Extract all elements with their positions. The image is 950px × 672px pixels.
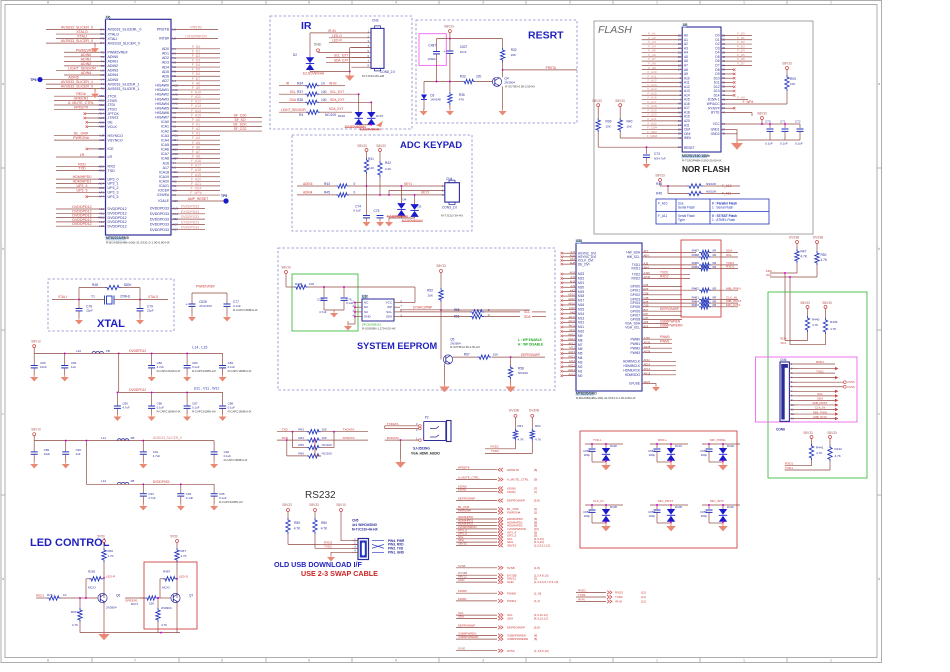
svg-text:F_A11: F_A11 — [191, 95, 201, 99]
svg-text:PWM2VREF: PWM2VREF — [108, 50, 129, 54]
svg-text:RXD1: RXD1 — [816, 360, 824, 364]
svg-text:UP3_0: UP3_0 — [108, 177, 119, 181]
power S8V10 rs232 — [340, 509, 343, 512]
resistor R40 10K — [619, 104, 622, 107]
svg-text:R-BGA989(489+100)-31.0X31.0-1.: R-BGA989(489+100)-31.0X31.0-1.00-0.80-HX — [576, 396, 636, 400]
U6 pin IOWE# wire — [171, 194, 220, 196]
U6 pin ICA6 wire — [171, 148, 220, 150]
ground under D110 — [709, 522, 723, 524]
U6 pin ICA5 wire — [171, 144, 220, 146]
svg-text:AB8: AB8 — [99, 125, 105, 129]
svg-text:100p: 100p — [649, 453, 656, 457]
svg-text:T4: T4 — [101, 59, 105, 63]
svg-text:R-CAPC2012N-HX: R-CAPC2012N-HX — [157, 369, 181, 373]
power S8V33 for flash config resistors — [659, 179, 662, 182]
U6 pin ADIN3 wire — [56, 69, 106, 71]
svg-text:F_D7: F_D7 — [737, 61, 745, 65]
svg-text:DVDDPD12: DVDDPD12 — [108, 224, 127, 228]
U6 pin JTRST wire — [86, 117, 106, 119]
RESRT block border — [416, 20, 577, 123]
svg-text:F_A20: F_A20 — [191, 177, 201, 181]
svg-text:R440: R440 — [812, 318, 820, 322]
svg-text:8: 8 — [47, 659, 49, 663]
svg-text:R66: R66 — [108, 549, 114, 553]
svg-text:2: 2 — [569, 659, 571, 663]
Q6 emitter to ground rail — [103, 603, 105, 633]
ground under Q5 — [444, 364, 446, 386]
svg-text:R60: R60 — [321, 521, 327, 525]
svg-text:E29: E29 — [644, 287, 649, 291]
CN6 pin 1 wire — [789, 363, 798, 365]
U34 pin M0 stub — [563, 375, 576, 377]
capacitor C80 10uF — [33, 353, 35, 365]
svg-text:5V50: 5V50 — [170, 535, 178, 539]
resistor R072 4.7K — [79, 598, 81, 608]
op-amp U6 main SoC MT8222A — [106, 19, 172, 235]
svg-text:DV50: DV50 — [848, 385, 855, 389]
svg-text:4.7K: 4.7K — [816, 451, 823, 455]
svg-text:220: 220 — [476, 75, 482, 79]
U8 pin D6 wire — [721, 60, 752, 62]
svg-text:SCL: SCL — [780, 341, 786, 345]
svg-text:4.7K: 4.7K — [161, 623, 167, 627]
svg-text:AB3: AB3 — [172, 147, 178, 151]
U6 IOALE pin / AMP_RESET wire / test point TP5 — [171, 200, 226, 202]
svg-text:T3: T3 — [101, 55, 105, 59]
svg-text:S8V12: S8V12 — [31, 340, 41, 344]
svg-text:a: a — [2, 82, 4, 86]
svg-text:AVS033_SLICER_1: AVS033_SLICER_1 — [108, 82, 140, 86]
power S8V33 keypad 1 — [365, 149, 368, 152]
ground under U8 GND — [731, 139, 743, 150]
svg-text:T2: T2 — [101, 50, 105, 54]
U34 pin PWM2 wire — [642, 347, 672, 349]
svg-text:GPIO1: GPIO1 — [630, 288, 640, 292]
U8 pin A12 wire — [642, 86, 683, 88]
svg-text:AJ11: AJ11 — [569, 328, 575, 332]
svg-text:EXDDPD33: EXDDPD33 — [181, 210, 199, 214]
U8 pin A6 wire — [642, 60, 683, 62]
resistor R35 47K — [449, 82, 451, 93]
U6 pin AD3 wire — [171, 62, 220, 64]
svg-text:TXD2: TXD2 — [491, 449, 499, 453]
U6 pin VCLK wire — [88, 126, 106, 128]
svg-text:R67: R67 — [181, 549, 187, 553]
resistor R57 10K — [453, 356, 478, 358]
ground under C80 — [30, 375, 38, 382]
U6 pin A17 wire — [171, 167, 220, 169]
off-page connector SDA — [456, 617, 497, 619]
svg-text:AK28: AK28 — [644, 349, 651, 353]
U6 pin LR wire — [56, 156, 106, 158]
svg-text:HDMIBCLK: HDMIBCLK — [624, 364, 641, 368]
ground under Q4 emitter — [502, 86, 504, 110]
capacitor C79 22pF — [139, 300, 141, 309]
U6 pin OE wire — [88, 121, 106, 123]
svg-text:R66: R66 — [298, 452, 304, 456]
svg-text:F_A16: F_A16 — [191, 159, 201, 163]
resistor R62 4.7K — [530, 429, 534, 441]
svg-text:AJ29: AJ29 — [644, 271, 651, 275]
svg-text:Y1: Y1 — [91, 295, 95, 299]
power S8V33 R442 — [829, 436, 832, 439]
svg-text:S8V10: S8V10 — [281, 266, 291, 270]
svg-text:M13: M13 — [578, 316, 584, 320]
svg-text:R441: R441 — [816, 446, 824, 450]
transistor Q4 2N3904 — [492, 77, 501, 86]
svg-text:4.7K: 4.7K — [535, 437, 541, 441]
U8 pin A19 wire — [642, 116, 683, 118]
capacitor C82 4.7uF — [151, 353, 153, 365]
capacitor C73 NS4.7uF — [646, 146, 648, 148]
ground LED control — [103, 632, 105, 634]
svg-text:SCL: SCL — [290, 90, 296, 94]
svg-text:R38: R38 — [297, 98, 303, 102]
svg-text:AH8: AH8 — [570, 261, 576, 265]
svg-text:HISAW2: HISAW2 — [155, 93, 169, 97]
svg-text:AB9: AB9 — [99, 120, 105, 124]
U34 EFUSE pin to ground — [642, 382, 656, 384]
svg-text:AC7: AC7 — [172, 222, 178, 226]
svg-text:R35: R35 — [459, 93, 465, 97]
svg-text:[12]: [12] — [641, 595, 646, 599]
svg-text:1: 1 — [656, 659, 658, 663]
U8 pin CE# wire — [642, 128, 683, 130]
svg-text:10K: 10K — [627, 125, 632, 129]
svg-text:ADIN2: ADIN2 — [81, 62, 92, 66]
svg-text:RXD1: RXD1 — [726, 265, 735, 269]
U6 pin ICA20 wire — [171, 180, 220, 182]
svg-text:NS4.7uF: NS4.7uF — [654, 157, 666, 161]
svg-text:3: 3 — [482, 659, 484, 663]
svg-text:4.7K: 4.7K — [518, 437, 524, 441]
svg-text:D100: D100 — [610, 444, 617, 448]
U8 pin D7 wire — [721, 64, 752, 66]
U34 pin M2 stub — [563, 366, 576, 368]
svg-text:S8V33: S8V33 — [282, 503, 292, 507]
jack ground — [400, 439, 402, 441]
svg-text:ADIN1: ADIN1 — [108, 60, 119, 64]
svg-text:VGA_HDMI_AUDIO: VGA_HDMI_AUDIO — [411, 452, 440, 456]
svg-text:MIB_PWN: MIB_PWN — [813, 410, 827, 414]
svg-text:1: 1 — [743, 1, 745, 5]
svg-text:10uF: 10uF — [44, 452, 51, 456]
svg-text:D4: D4 — [403, 198, 407, 202]
svg-text:R42: R42 — [385, 161, 391, 165]
U6 pin XTALI wire — [56, 38, 106, 40]
svg-text:M20: M20 — [578, 285, 584, 289]
svg-text:L15: L15 — [99, 224, 104, 228]
svg-text:SDA_EXT: SDA_EXT — [330, 98, 345, 102]
U34 pin GPIO7 wire — [642, 314, 682, 316]
svg-text:AA1: AA1 — [172, 102, 178, 106]
svg-text:RXDATA: RXDATA — [387, 436, 400, 440]
U6 pin HISAW4 wire — [171, 103, 220, 105]
svg-text:M18: M18 — [578, 294, 584, 298]
svg-text:R39: R39 — [606, 120, 612, 124]
svg-text:R458: R458 — [692, 253, 700, 257]
svg-text:U6: U6 — [106, 15, 110, 19]
resistor R52 20K — [439, 288, 443, 302]
svg-text:SDA: SDA — [289, 98, 296, 102]
ground under R35 — [449, 105, 451, 110]
red highlight box TVS diodes — [580, 431, 737, 548]
U8 pin D13 no-connect stub — [721, 90, 733, 92]
svg-text:LED-R: LED-R — [106, 575, 116, 579]
svg-text:HISAW0: HISAW0 — [155, 84, 169, 88]
svg-text:AG11: AG11 — [568, 319, 575, 323]
svg-text:[5,8]: [5,8] — [534, 499, 540, 503]
svg-text:L14 , L15: L14 , L15 — [192, 345, 207, 349]
svg-text:ICA21: ICA21 — [159, 184, 169, 188]
svg-text:AG9: AG9 — [570, 271, 576, 275]
svg-text:R50: R50 — [821, 253, 827, 257]
svg-text:15uF: 15uF — [460, 50, 467, 54]
XTAL block border — [48, 279, 174, 331]
svg-text:S8V33: S8V33 — [458, 541, 467, 545]
U34 pin M22 stub — [563, 277, 576, 279]
U34 pin VGA_SDA wire — [642, 322, 668, 324]
capacitor C88 0.1uF — [222, 392, 224, 405]
svg-text:IOWE#: IOWE# — [157, 193, 169, 197]
svg-text:F_A7: F_A7 — [192, 150, 200, 154]
svg-text:PWRON#: PWRON# — [507, 511, 520, 515]
svg-text:AJ2: AJ2 — [99, 138, 104, 142]
resistor R41 2.2K — [364, 158, 368, 174]
svg-text:D102: D102 — [727, 444, 734, 448]
FLASH block border — [594, 21, 813, 234]
U6 pin INT8# wire — [171, 38, 218, 40]
svg-text:AD7: AD7 — [172, 228, 178, 232]
svg-text:R-CAPC1608N-HX: R-CAPC1608N-HX — [224, 458, 248, 462]
svg-text:R65: R65 — [298, 443, 304, 447]
svg-text:PWM3: PWM3 — [630, 351, 640, 355]
svg-text:RXD: RXD — [282, 436, 289, 440]
svg-text:AMP_RESET: AMP_RESET — [188, 197, 209, 201]
resistor R67 — [175, 548, 179, 562]
U8 pin A0 wire — [642, 35, 683, 37]
svg-text:M15: M15 — [578, 307, 584, 311]
U8 GND pins — [721, 129, 737, 131]
svg-text:AVSS33_SLICER_0: AVSS33_SLICER_0 — [108, 41, 140, 45]
resistor R66 — [102, 548, 106, 562]
svg-text:N2: N2 — [172, 65, 176, 69]
off-page connector A_MUTE_CTRL — [456, 478, 497, 480]
svg-text:W2: W2 — [172, 179, 177, 183]
svg-text:4: 4 — [395, 659, 397, 663]
svg-text:F_A12: F_A12 — [191, 100, 201, 104]
svg-text:EEPROMWP: EEPROMWP — [458, 623, 475, 627]
svg-text:PWRON#: PWRON# — [458, 509, 471, 513]
svg-text:AK15: AK15 — [568, 372, 575, 376]
svg-text:F_A10: F_A10 — [658, 202, 668, 206]
svg-text:AH13: AH13 — [568, 350, 575, 354]
svg-text:[1,8]: [1,8] — [534, 566, 540, 570]
svg-text:XTALI: XTALI — [58, 295, 67, 299]
capacitor C72 — [799, 124, 801, 128]
ground under C79 — [136, 318, 144, 325]
svg-text:d: d — [2, 577, 4, 581]
svg-text:R-CAPC1608N-HX: R-CAPC1608N-HX — [228, 410, 252, 414]
svg-text:F_WP#: F_WP# — [743, 100, 754, 104]
U8 pin A3 wire — [642, 47, 683, 49]
svg-text:10K: 10K — [606, 125, 611, 129]
power 5V50 led red — [103, 540, 106, 543]
ground under D106 D107 — [358, 124, 360, 126]
svg-text:4.7K: 4.7K — [830, 327, 837, 331]
svg-text:AE24: AE24 — [644, 380, 651, 384]
svg-text:AD0: AD0 — [162, 47, 169, 51]
U6 pin XTALO wire — [56, 33, 106, 35]
off-page connector HDMIHPD0 — [456, 518, 497, 520]
svg-text:F_OE#: F_OE# — [191, 186, 202, 190]
svg-text:46: 46 — [722, 132, 726, 136]
svg-text:Y5: Y5 — [172, 115, 176, 119]
svg-text:AJ5: AJ5 — [644, 262, 649, 266]
svg-text:E28: E28 — [644, 300, 649, 304]
U8 pin A5 wire — [642, 56, 683, 58]
svg-text:AVDD33_SLICER_0: AVDD33_SLICER_0 — [153, 436, 182, 440]
U34 pin PWM1 wire — [642, 343, 672, 345]
svg-text:N1: N1 — [172, 56, 176, 60]
svg-text:RXD2: RXD2 — [631, 277, 640, 281]
svg-text:R282: R282 — [88, 570, 96, 574]
svg-text:M8: M8 — [578, 338, 583, 342]
svg-text:HPDET#: HPDET# — [507, 468, 519, 472]
svg-text:C487: C487 — [428, 43, 436, 47]
svg-text:1 : ATMEL Flash: 1 : ATMEL Flash — [712, 218, 735, 222]
svg-text:100: 100 — [321, 98, 327, 102]
svg-text:R33: R33 — [460, 75, 466, 79]
svg-text:AG13: AG13 — [568, 363, 575, 367]
svg-text:N5: N5 — [172, 74, 176, 78]
U8 pin A16 wire — [642, 103, 683, 105]
svg-text:RXD-L: RXD-L — [658, 438, 667, 442]
svg-text:RED1: RED1 — [36, 594, 45, 598]
U6 pin UP3_3 wire — [56, 191, 106, 193]
svg-text:L10: L10 — [76, 349, 81, 353]
svg-text:IR-IN: IR-IN — [578, 597, 585, 601]
svg-text:LED-G: LED-G — [332, 34, 342, 38]
resistor R440 4.7K — [805, 316, 809, 332]
svg-text:AC2: AC2 — [172, 83, 178, 87]
svg-text:ICA20: ICA20 — [159, 180, 169, 184]
svg-text:ADIN0: ADIN0 — [81, 53, 92, 57]
svg-text:F_A14: F_A14 — [191, 109, 201, 113]
resistor R441 4.7K — [809, 444, 813, 460]
U34 pin M9 stub — [563, 335, 576, 337]
power S8V33 keypad 2 — [379, 149, 382, 152]
svg-text:VGA_SCL: VGA_SCL — [625, 326, 640, 330]
svg-text:AG4: AG4 — [172, 212, 178, 216]
power S8V33 reset — [448, 30, 451, 33]
U8 pin A15 wire — [642, 99, 683, 101]
U8 pin D2 wire — [721, 43, 752, 45]
diode D3 1N4148 — [423, 82, 425, 94]
svg-text:D109: D109 — [675, 505, 682, 509]
svg-text:UP3_5: UP3_5 — [108, 195, 119, 199]
resistor R60 4.7K — [313, 518, 317, 534]
U6 pin HISAW3 wire — [171, 98, 220, 100]
svg-text:AH15: AH15 — [644, 372, 651, 376]
U6 pin ICA2 wire — [171, 130, 220, 132]
svg-text:AC1: AC1 — [172, 134, 178, 138]
U34 pin M5 stub — [563, 353, 576, 355]
off-page connector USB6PWREN — [456, 635, 497, 637]
resistor R66 NC/100 — [286, 440, 288, 456]
resistor R61 4.7K — [513, 429, 517, 441]
U34 pin M3 stub — [563, 361, 576, 363]
svg-text:R-CAPC1608N-HX: R-CAPC1608N-HX — [192, 410, 216, 414]
svg-text:VCLK: VCLK — [108, 125, 118, 129]
capacitor C058 100p — [656, 505, 658, 509]
svg-text:PWM0: PWM0 — [507, 591, 516, 595]
svg-text:1N4148: 1N4148 — [430, 97, 441, 101]
U6 pin DVDDPD12 wire — [56, 221, 106, 223]
wire SDA_EXT to CN3 pin7 — [326, 61, 371, 63]
svg-text:M5: M5 — [578, 352, 583, 356]
svg-text:DV30B: DV30B — [529, 409, 539, 413]
svg-text:AG8: AG8 — [570, 253, 576, 257]
U6 pin ADIN1 wire — [64, 60, 106, 62]
svg-text:DV50: DV50 — [458, 647, 466, 651]
svg-text:C72: C72 — [795, 120, 801, 124]
svg-text:37: 37 — [722, 122, 726, 126]
svg-text:R58: R58 — [518, 367, 524, 371]
U34 pin M20 stub — [563, 286, 576, 288]
svg-text:R-CAPC1608N-HX: R-CAPC1608N-HX — [219, 500, 243, 504]
svg-text:F_A15: F_A15 — [191, 113, 201, 117]
off-page connector BL_ON# — [456, 508, 497, 510]
svg-text:AD5: AD5 — [162, 70, 169, 74]
svg-text:RESRT: RESRT — [528, 30, 564, 42]
U8 pin D5 wire — [721, 56, 752, 58]
svg-text:R-CAPC1608N-HX: R-CAPC1608N-HX — [228, 369, 252, 373]
svg-text:PWM1: PWM1 — [630, 342, 640, 346]
svg-text:TXD-L: TXD-L — [593, 438, 602, 442]
svg-text:PRSTA: PRSTA — [546, 66, 557, 70]
ground under D102 — [709, 461, 723, 463]
U8 pin A18 wire — [642, 111, 683, 113]
U6 pin ICA4 wire — [171, 139, 220, 141]
svg-text:UP3_3: UP3_3 — [108, 191, 119, 195]
svg-text:GND2: GND2 — [711, 132, 720, 136]
svg-text:[5,8]: [5,8] — [534, 626, 540, 630]
CN6 pin 5 wire — [789, 381, 798, 383]
svg-text:IR-IN: IR-IN — [328, 29, 336, 33]
U34 pin HDMIBCLK wire — [642, 365, 676, 367]
U8 pin A11 wire — [642, 81, 683, 83]
resistor R50 4.7K — [815, 251, 819, 265]
svg-text:USE 2-3 SWAP CABLE: USE 2-3 SWAP CABLE — [301, 569, 378, 578]
U6 pin AD4 wire — [171, 66, 220, 68]
svg-text:A_MUTE_CTRL: A_MUTE_CTRL — [507, 478, 529, 482]
svg-text:F_D1: F_D1 — [192, 49, 200, 53]
svg-text:SCL_EXT: SCL_EXT — [330, 90, 344, 94]
svg-text:1: 1 — [830, 659, 832, 663]
svg-text:AK10: AK10 — [568, 302, 575, 306]
U34 pin M21 stub — [563, 282, 576, 284]
svg-text:6: 6 — [221, 659, 223, 663]
capacitor C057 100p — [591, 505, 593, 509]
svg-text:5VSB: 5VSB — [507, 566, 515, 570]
svg-text:DV33B: DV33B — [789, 236, 799, 240]
capacitor C527 — [449, 39, 451, 51]
svg-text:LIGHT_SENSOR: LIGHT_SENSOR — [68, 66, 96, 70]
svg-text:M23: M23 — [578, 272, 584, 276]
svg-text:AVSS33_SLICER_0: AVSS33_SLICER_0 — [61, 85, 93, 89]
power DV33B pullup R50 — [816, 241, 819, 244]
